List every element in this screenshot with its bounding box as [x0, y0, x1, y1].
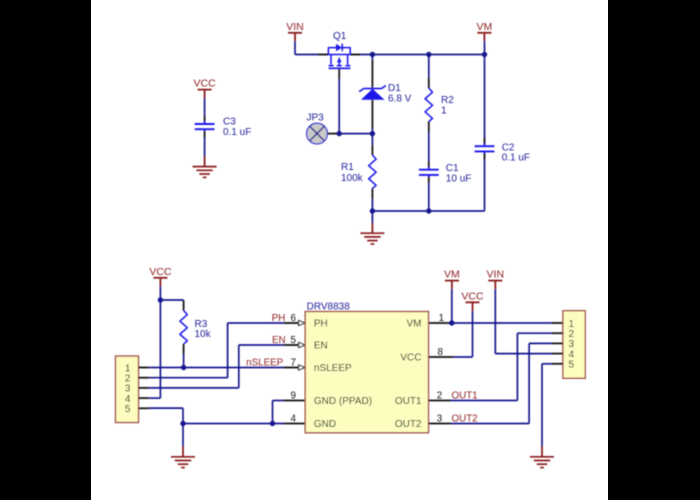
wire	[451, 343, 552, 423]
svg-text:Q1: Q1	[333, 31, 347, 42]
resistor R2	[425, 55, 454, 132]
wire	[451, 333, 552, 400]
net label nSLEEP	[246, 357, 296, 368]
wire	[451, 322, 552, 324]
power flag VCC	[461, 290, 484, 311]
svg-text:EN: EN	[272, 335, 286, 346]
svg-text:VIN: VIN	[286, 21, 304, 33]
capacitor C3	[195, 116, 252, 138]
connector JP2	[552, 311, 585, 379]
svg-text:OUT1: OUT1	[395, 396, 422, 407]
svg-text:VCC: VCC	[194, 78, 217, 90]
svg-text:nSLEEP: nSLEEP	[314, 363, 352, 374]
svg-text:0.1 uF: 0.1 uF	[502, 153, 530, 164]
wire	[149, 408, 183, 423]
transistor Q1	[318, 31, 361, 79]
svg-text:JP3: JP3	[307, 113, 325, 124]
jumper JP3	[307, 113, 339, 144]
pin 1 VM	[429, 313, 451, 324]
pin 2 OUT1	[429, 391, 451, 402]
capacitor C1	[419, 132, 471, 211]
pin 8 VCC	[429, 347, 454, 358]
svg-text:GND: GND	[314, 419, 336, 430]
pin EN	[284, 343, 306, 348]
power flag VIN	[487, 269, 505, 290]
pin 4 GND	[284, 414, 306, 425]
net label OUT2	[452, 414, 478, 425]
wire	[453, 311, 472, 357]
junction	[158, 297, 455, 426]
svg-text:10k: 10k	[195, 329, 212, 340]
wire	[159, 286, 161, 300]
svg-text:PH: PH	[314, 319, 328, 330]
wire	[204, 98, 206, 116]
power flag VIN	[286, 21, 304, 42]
svg-text:EN: EN	[314, 341, 328, 352]
resistor R3	[180, 300, 212, 367]
wire	[149, 367, 284, 369]
svg-text:10 uF: 10 uF	[446, 173, 472, 184]
wire	[149, 345, 284, 388]
wire	[451, 289, 453, 323]
power flag VM	[444, 269, 460, 290]
pin nSLEEP	[284, 365, 306, 370]
net label EN	[272, 335, 297, 346]
pin 3 OUT2	[429, 414, 451, 425]
op-amp U1 DRV8838	[305, 301, 428, 432]
ground	[360, 223, 384, 244]
wire	[295, 41, 318, 54]
ground	[171, 446, 195, 467]
svg-text:PH: PH	[272, 313, 286, 324]
net label OUT1	[452, 391, 478, 402]
wire	[183, 423, 284, 425]
svg-text:VCC: VCC	[400, 353, 421, 364]
svg-text:VM: VM	[407, 319, 422, 330]
wire	[338, 79, 340, 134]
wire	[149, 323, 284, 378]
svg-text:5: 5	[569, 360, 575, 371]
svg-text:100k: 100k	[341, 173, 364, 184]
svg-text:VIN: VIN	[487, 269, 505, 281]
pin PH	[284, 321, 306, 326]
power flag VCC	[194, 78, 217, 99]
capacitor C2	[475, 55, 530, 212]
svg-text:R1: R1	[341, 162, 354, 173]
junction	[337, 52, 488, 214]
svg-text:5: 5	[125, 404, 131, 415]
ground	[193, 156, 217, 177]
resistor R1	[341, 134, 376, 211]
power flag VCC	[149, 266, 172, 287]
net label PH	[272, 313, 297, 324]
wire	[338, 133, 372, 135]
wire	[371, 211, 373, 223]
wire	[204, 137, 206, 156]
connector JP1	[116, 356, 149, 423]
svg-text:VCC: VCC	[149, 266, 172, 278]
wire	[149, 300, 161, 398]
wire	[484, 41, 486, 54]
wire	[495, 289, 552, 353]
wire	[372, 210, 484, 212]
wire	[160, 299, 183, 301]
svg-text:GND (PPAD): GND (PPAD)	[314, 396, 372, 407]
svg-text:OUT2: OUT2	[395, 419, 422, 430]
wire	[361, 54, 485, 56]
svg-text:DRV8838: DRV8838	[307, 301, 351, 312]
wire	[542, 364, 552, 447]
svg-text:0.1 uF: 0.1 uF	[223, 127, 251, 138]
pin 9 GND PPAD	[284, 391, 306, 402]
svg-text:VCC: VCC	[461, 290, 484, 302]
svg-text:VM: VM	[477, 21, 493, 33]
power flag VM	[477, 21, 493, 42]
svg-text:1: 1	[441, 105, 447, 116]
wire	[182, 424, 184, 447]
svg-text:6.8 V: 6.8 V	[388, 93, 412, 104]
svg-text:nSLEEP: nSLEEP	[246, 357, 284, 368]
ground	[530, 446, 554, 467]
svg-text:VM: VM	[444, 269, 460, 281]
diode D1	[359, 55, 411, 134]
wire	[273, 401, 284, 424]
